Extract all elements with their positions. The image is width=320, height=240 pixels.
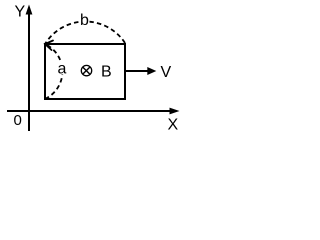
X axis — [7, 110, 173, 112]
svg-text:X: X — [168, 117, 179, 134]
svg-text:B: B — [101, 64, 112, 81]
dashed trajectory arc b — [45, 22, 125, 44]
label a (with halo) — [57, 63, 67, 75]
svg-text:V: V — [161, 64, 172, 81]
label b (with halo) — [79, 13, 90, 26]
svg-text:a: a — [58, 61, 67, 78]
Y axis arrowhead — [26, 5, 33, 15]
velocity arrow V — [125, 70, 151, 72]
svg-text:0: 0 — [14, 112, 22, 129]
dashed trajectory arc a — [45, 44, 62, 99]
X axis arrowhead — [170, 108, 180, 115]
Y axis — [28, 11, 30, 131]
field region rectangle — [45, 44, 125, 99]
arrowhead at top-left corner (exit direction) — [45, 41, 53, 51]
svg-text:Y: Y — [15, 4, 26, 21]
svg-text:b: b — [80, 12, 89, 29]
B field symbol: circle with cross — [81, 65, 91, 75]
